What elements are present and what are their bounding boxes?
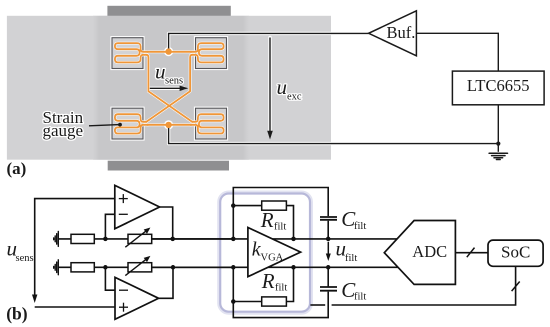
wire ADC to SoC bbox=[455, 252, 488, 254]
svg-text:R: R bbox=[260, 208, 274, 232]
node row1 bbox=[103, 237, 108, 242]
VGA highlight box bbox=[220, 194, 310, 312]
svg-text:filt: filt bbox=[274, 222, 286, 233]
svg-text:R: R bbox=[261, 269, 275, 293]
orange wiring: colour pass bbox=[115, 43, 224, 133]
row 2 wire (y=267.3) bbox=[58, 266, 233, 268]
R_filt loop top bbox=[233, 188, 328, 239]
black wires of (a): halo pass bbox=[150, 33, 499, 143]
svg-text:gauge: gauge bbox=[43, 121, 84, 140]
strain gauge meander R4 bbox=[190, 114, 223, 133]
u_sens input port (b) bbox=[7, 199, 116, 307]
capacitor C_filt bottom bbox=[320, 287, 337, 291]
row 1 wire (y=238.9) bbox=[58, 238, 233, 240]
variable resistor row2 bbox=[125, 256, 151, 276]
specimen plate bbox=[7, 16, 331, 160]
VGA amplifier k_VGA bbox=[248, 228, 301, 277]
buffer amp Buf. bbox=[369, 11, 417, 56]
strain gauge meander R2 bbox=[190, 43, 223, 62]
svg-text:filt: filt bbox=[345, 253, 357, 264]
SoC box bbox=[488, 240, 543, 266]
svg-text:exc: exc bbox=[287, 91, 302, 102]
node row2 at op-amp output bbox=[171, 265, 176, 270]
wire diagonal R1->R4 bbox=[146, 55, 192, 122]
svg-text:SoC: SoC bbox=[501, 243, 530, 262]
label Strain gauge bbox=[43, 108, 84, 140]
junction dot at ground bbox=[496, 142, 500, 146]
clamp top bbox=[107, 6, 230, 16]
u_exc arrow bbox=[267, 38, 273, 140]
node row2 bbox=[103, 265, 108, 270]
orange wiring: white halo pass bbox=[115, 43, 224, 133]
svg-text:Buf.: Buf. bbox=[387, 23, 416, 42]
label u_sens (a) bbox=[155, 60, 183, 87]
node row1 at op-amp output bbox=[170, 237, 175, 242]
voltage reference LTC6655 bbox=[452, 71, 544, 105]
signal line 2 into filter (y=267.3) bbox=[152, 266, 399, 268]
ADC converter bbox=[384, 221, 455, 285]
op-amp U1 (top) bbox=[105, 185, 172, 239]
ground row1 bbox=[54, 231, 59, 246]
u_sens arrow head bbox=[32, 295, 37, 304]
svg-text:filt: filt bbox=[354, 292, 366, 303]
R_filt loop bottom bbox=[233, 267, 328, 317]
label C_filt bottom bbox=[341, 278, 366, 303]
node halo circles bbox=[164, 47, 173, 56]
signal line 1 into filter (y=238.9) bbox=[152, 238, 398, 240]
wire SoC to VGA control bbox=[310, 266, 515, 305]
resistor R_filt bottom bbox=[262, 297, 287, 306]
u_filt arrow bbox=[326, 237, 358, 264]
node top (bridge output +) bbox=[165, 48, 171, 54]
svg-text:LTC6655: LTC6655 bbox=[467, 76, 530, 95]
label C_filt top bbox=[341, 207, 366, 232]
resistor row2 bbox=[71, 263, 94, 272]
svg-text:filt: filt bbox=[354, 221, 366, 232]
svg-text:sens: sens bbox=[16, 253, 34, 264]
wire bottom node line bbox=[147, 124, 192, 126]
svg-text:(a): (a) bbox=[7, 159, 27, 178]
resistor row1 bbox=[71, 234, 94, 243]
svg-text:(b): (b) bbox=[6, 303, 28, 323]
resistor R_filt top bbox=[262, 201, 287, 210]
svg-text:ADC: ADC bbox=[412, 242, 447, 261]
wire diagonal R2->R3 bbox=[146, 55, 192, 122]
label R_filt bottom bbox=[261, 269, 288, 294]
label u_exc bbox=[277, 75, 302, 102]
gauge box R2 (top-right) bbox=[196, 38, 227, 69]
wire Buf to LTC6655 bbox=[416, 33, 498, 71]
gauge box R3 (bottom-left) bbox=[112, 108, 143, 139]
gauge box R4 (bottom-right) bbox=[196, 108, 227, 139]
svg-text:VGA: VGA bbox=[261, 253, 284, 264]
strain gauge meander R3 bbox=[115, 114, 148, 133]
svg-text:u: u bbox=[155, 60, 166, 84]
strain gauge meander R1 bbox=[115, 43, 148, 62]
wire top node line bbox=[147, 51, 192, 53]
junction dots on filter lines bbox=[231, 237, 236, 242]
wire: bridge bottom node to ground junction bbox=[169, 125, 499, 144]
u_sens arrow (a) bbox=[150, 86, 189, 91]
capacitor C_filt top bbox=[320, 217, 337, 220]
svg-text:sens: sens bbox=[165, 76, 183, 87]
bus slash ADC-SoC bbox=[467, 248, 475, 258]
clamp bottom bbox=[108, 161, 229, 171]
bus slash SoC feedback bbox=[512, 282, 520, 292]
gauge box R1 (top-left) bbox=[112, 38, 143, 69]
wire bottom rail bbox=[35, 306, 115, 308]
specimen middle band bbox=[93, 16, 249, 160]
wire: bridge top node to Buf bbox=[169, 33, 369, 51]
ground (a) bbox=[489, 153, 507, 159]
svg-text:filt: filt bbox=[275, 283, 287, 294]
ground row2 bbox=[54, 260, 59, 275]
variable resistor row1 bbox=[125, 228, 151, 248]
wire top rail bbox=[35, 199, 115, 300]
op-amp U2 (bottom) bbox=[105, 267, 173, 319]
wire LTC6655 to ground bbox=[497, 105, 499, 152]
node bottom (bridge output -) bbox=[165, 122, 171, 128]
svg-text:u: u bbox=[277, 75, 288, 99]
label R_filt top bbox=[260, 208, 287, 233]
pointer line bbox=[89, 125, 120, 126]
